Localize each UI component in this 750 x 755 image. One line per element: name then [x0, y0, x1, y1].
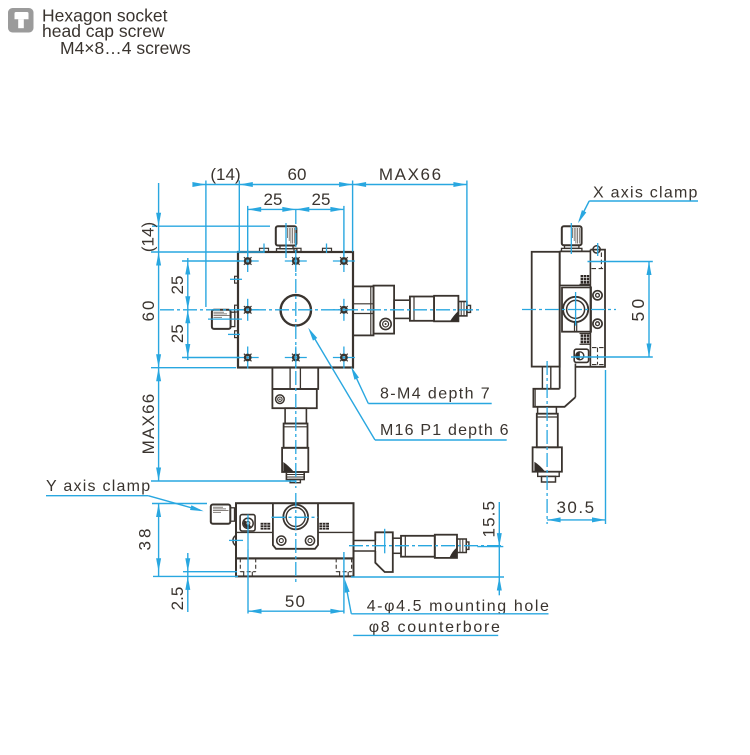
- side clamp knob: [562, 226, 582, 251]
- ext line micrometer tip: [466, 181, 468, 307]
- stem: [394, 300, 410, 318]
- front body square 60x60: [238, 252, 353, 368]
- thimble: [533, 447, 562, 471]
- X axis micrometer (front view, right): [353, 286, 471, 336]
- side top screw half circle: [593, 246, 600, 253]
- ext line hole col right: [343, 206, 345, 257]
- svg-text:M4×8…4 screws: M4×8…4 screws: [60, 38, 191, 58]
- side boss clamp slit: [575, 323, 577, 332]
- svg-text:(14): (14): [210, 165, 240, 184]
- ratchet: [458, 302, 467, 316]
- side micrometer centerline: [546, 361, 548, 524]
- bottom center boss circles: [283, 505, 308, 530]
- front left knob centerline: [208, 318, 242, 320]
- svg-text:MAX66: MAX66: [379, 165, 443, 184]
- bracket block: [272, 389, 316, 408]
- label Y axis clamp: [46, 478, 204, 514]
- bottom knob knurl shading: [213, 507, 229, 512]
- svg-text:2.5: 2.5: [168, 587, 187, 611]
- side boss block: [562, 287, 591, 331]
- 15.5 arrows outside: [497, 533, 502, 547]
- top knob knurl shading: [288, 228, 295, 244]
- bottom block screw right: [305, 536, 314, 545]
- center block: [273, 504, 318, 549]
- svg-text:M16 P1 depth 6: M16 P1 depth 6: [380, 422, 510, 439]
- 50 dim line (bottom): [248, 610, 344, 612]
- Y micrometer mount screw: [276, 395, 285, 404]
- bump centerline: [229, 539, 243, 541]
- bottom clamp knurl patch right: [319, 523, 329, 530]
- bottom left detail square with screw: [240, 515, 255, 531]
- left column (carriage): [532, 252, 560, 367]
- ext line base lip: [183, 571, 237, 573]
- ext line Y micrometer tip: [151, 480, 296, 482]
- stem: [393, 538, 401, 553]
- svg-text:50: 50: [628, 296, 648, 322]
- M16 center hole: [281, 295, 311, 325]
- tip: [542, 476, 556, 482]
- mid column right edge lower: [574, 364, 576, 398]
- svg-text:50: 50: [285, 592, 306, 611]
- Y clamp knob (bottom view): [211, 505, 235, 524]
- side clamp knurl patch lower: [580, 334, 591, 345]
- ext line side hole row3: [571, 356, 653, 358]
- svg-text:60: 60: [139, 299, 158, 322]
- 30.5 dim line: [547, 519, 605, 521]
- ext line square bottom: [151, 367, 236, 369]
- left edge tab 1: [235, 276, 238, 283]
- side small screw upper: [593, 291, 602, 300]
- right column with top edge: [575, 250, 605, 367]
- hexagon socket screw icon: [8, 8, 34, 33]
- bottom left screw centerline: [247, 515, 249, 550]
- front left tab centerline upper: [230, 278, 242, 280]
- side thimble knurl patch: [534, 462, 545, 472]
- ext line bottom body top: [152, 503, 207, 505]
- ext line hole row1: [182, 260, 240, 262]
- side boss vertical centerline: [575, 292, 577, 326]
- top edge tab 2: [294, 248, 301, 252]
- Y thimble knurl patch: [283, 462, 294, 472]
- side small screw lower: [593, 319, 602, 328]
- 8-M4 screw holes grid: [237, 250, 355, 369]
- left dim column line: [158, 183, 160, 481]
- ratchet: [538, 472, 560, 477]
- 30.5 arrows: [547, 517, 561, 522]
- dimension arrowheads: [156, 182, 651, 614]
- label phi8 counterbore: [353, 619, 501, 636]
- ext line knob top: [152, 225, 270, 227]
- side clamp knurl patch upper: [580, 275, 591, 284]
- spindle columns: [541, 367, 543, 389]
- side hidden dashes: [592, 253, 606, 365]
- top edge tab 1: [260, 248, 269, 252]
- mount block: [374, 286, 395, 334]
- 50 bottom arrows: [248, 609, 262, 614]
- spindle: [354, 541, 376, 552]
- svg-text:25: 25: [168, 276, 187, 295]
- thimble: [434, 296, 458, 322]
- ext line side hole row1: [588, 261, 653, 263]
- barrel: [410, 297, 434, 321]
- svg-text:60: 60: [288, 165, 307, 184]
- mid column inner line upper: [560, 284, 591, 286]
- left MAX66 arrows: [156, 368, 161, 382]
- barrel: [284, 424, 308, 448]
- svg-text:X axis clamp: X axis clamp: [593, 185, 699, 202]
- ext tick micrometer centerline: [477, 546, 503, 548]
- left edge tab 3: [235, 331, 238, 338]
- bottom bracket centerline: [384, 529, 386, 554]
- top clamp knob (front view): [276, 226, 297, 252]
- middle column: [560, 250, 591, 252]
- svg-text:8-M4 depth 7: 8-M4 depth 7: [380, 386, 491, 403]
- svg-text:25: 25: [168, 324, 187, 343]
- 60 right arrow / MAX66 left arrow: [339, 182, 353, 187]
- (14) arrows: [192, 182, 206, 187]
- stem: [538, 407, 557, 414]
- Y axis micrometer (front view, bottom): [272, 368, 318, 483]
- V bracket: [375, 532, 393, 572]
- front vertical centerline: [295, 210, 297, 488]
- thimble: [282, 448, 308, 472]
- hanger bracket: [272, 368, 318, 389]
- ext line mounting hole right: [343, 552, 345, 614]
- barrel: [401, 536, 435, 557]
- label 8-M4 depth 7: [349, 365, 492, 403]
- left knob knurl shading: [214, 312, 230, 319]
- left (14) arrow: [156, 213, 161, 227]
- side center boss circles: [563, 297, 588, 322]
- L bracket: [533, 389, 575, 407]
- front top tab centerline 2: [326, 244, 328, 254]
- ext line base bottom: [153, 575, 238, 577]
- top dimension line row1: [193, 184, 467, 186]
- bottom block screw left: [277, 536, 286, 545]
- 25-25 arrows: [248, 207, 262, 212]
- ext line square right: [352, 181, 354, 252]
- bottom clamp knurl patch left: [261, 523, 271, 530]
- thimble: [435, 535, 457, 558]
- side Y micrometer hanger: [533, 367, 576, 482]
- left clamp knob (front view): [212, 310, 235, 329]
- mount plate: [353, 286, 374, 335]
- top edge tab 3: [323, 248, 332, 252]
- side 50 dim line: [648, 262, 650, 358]
- tip: [467, 305, 471, 312]
- counterbore hidden dashes left: [240, 558, 255, 576]
- ratchet: [286, 472, 304, 480]
- side lower screw detail: [574, 349, 588, 362]
- stem: [285, 408, 306, 423]
- ratchet: [457, 539, 466, 553]
- 38 arrows: [156, 504, 161, 518]
- front left tab centerline: [228, 333, 240, 335]
- ext line square top: [151, 251, 264, 253]
- svg-text:(14): (14): [139, 222, 158, 252]
- front horizontal centerline: [160, 309, 480, 311]
- svg-text:38: 38: [136, 526, 155, 551]
- side top screw centerline: [597, 243, 599, 256]
- svg-text:30.5: 30.5: [556, 498, 595, 517]
- tip: [466, 542, 469, 549]
- ext line mounting hole left: [247, 549, 249, 614]
- side knob centerline: [570, 223, 572, 254]
- left 60 arrows: [156, 252, 161, 266]
- top dimension line row2: 25-25: [248, 208, 344, 210]
- X micrometer mount screw: [380, 318, 391, 329]
- spindle notch: [353, 303, 374, 305]
- 2.5 dim column: [187, 553, 189, 612]
- label M16 P1 depth 6: [306, 326, 510, 440]
- X thimble knurl patch: [450, 311, 458, 321]
- front top knob centerline: [285, 223, 287, 258]
- bottom view boss centerline: [272, 516, 319, 518]
- barrel: [537, 414, 558, 448]
- carriage split line: [236, 531, 273, 533]
- side knob knurl shading: [573, 228, 580, 244]
- label X axis clamp: [576, 185, 699, 225]
- 2.5 arrows outside: [185, 558, 190, 572]
- side horizontal centerline: [522, 309, 616, 311]
- svg-text:25: 25: [264, 190, 283, 209]
- bottom view X micrometer: [354, 532, 469, 572]
- left edge tab 2: [235, 305, 238, 312]
- inner left dim column line: [187, 258, 189, 360]
- ext line hole col left: [247, 206, 249, 257]
- front top tab centerline 1: [263, 244, 265, 254]
- ext line hole row3: [182, 357, 240, 359]
- bottom view vertical centerline: [295, 493, 297, 584]
- ext line base bottom right: [351, 576, 504, 578]
- header text: hexagon socket head cap screw: [42, 6, 191, 59]
- ext line knob tip: [205, 181, 207, 308]
- svg-text:MAX66: MAX66: [139, 393, 158, 455]
- svg-text:15.5: 15.5: [480, 500, 499, 538]
- side view body: [532, 250, 605, 398]
- svg-text:4-φ4.5 mounting hole: 4-φ4.5 mounting hole: [367, 598, 551, 615]
- 38 dim column: [158, 504, 160, 577]
- 15.5 dim column: [498, 502, 500, 595]
- svg-text:25: 25: [312, 190, 331, 209]
- bottom thimble knurl patch: [450, 548, 457, 558]
- MAX66 right arrow: [453, 182, 467, 187]
- outer body: [236, 503, 354, 558]
- bottom micrometer centerline: [349, 545, 503, 547]
- tip: [290, 480, 300, 483]
- bottom view body: [236, 503, 354, 576]
- side 50 arrows: [647, 262, 652, 276]
- svg-text:φ8 counterbore: φ8 counterbore: [369, 619, 502, 636]
- bottom body left edge screw bump: [233, 536, 236, 546]
- base plate: [236, 558, 354, 576]
- ext line side body right: [605, 370, 607, 524]
- inner 25-25 arrows: [185, 261, 190, 275]
- label 4-phi4.5 mounting hole: [342, 579, 550, 615]
- ext line square left: [238, 181, 240, 252]
- svg-text:Y axis clamp: Y axis clamp: [46, 478, 151, 495]
- counterbore hidden dashes right: [336, 558, 351, 576]
